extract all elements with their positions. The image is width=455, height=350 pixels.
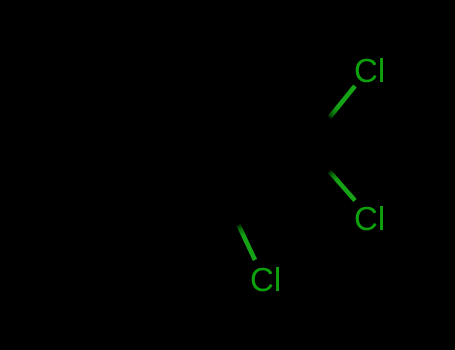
bond C1-Cl (middle right), chlorine-colored half — [330, 172, 356, 201]
svg-text:Cl: Cl — [354, 52, 385, 89]
carbon skeleton bond C1-C2 (black on black, invisible) — [222, 145, 304, 190]
bond C1-Cl (top), chlorine-colored half — [330, 86, 356, 118]
svg-text:Cl: Cl — [250, 261, 281, 298]
svg-text:Cl: Cl — [354, 200, 385, 237]
bond C2-Cl (bottom), chlorine-colored half — [239, 225, 256, 260]
